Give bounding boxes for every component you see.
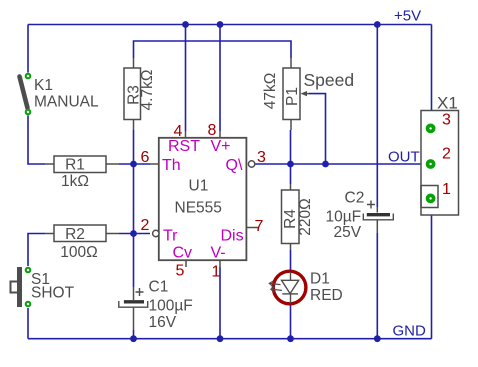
wire S1 bottom to GND [27, 308, 29, 339]
junction node Tr [130, 230, 137, 237]
switch K1 [19, 73, 99, 116]
junction C2 rail [374, 21, 381, 28]
wire R1 right to node Th [119, 163, 150, 165]
svg-text:100µF: 100µF [149, 298, 193, 315]
wire +5V rail left drop to K1 [27, 25, 29, 73]
svg-text:220Ω: 220Ω [297, 198, 314, 235]
svg-text:NE555: NE555 [175, 200, 222, 217]
svg-text:16V: 16V [149, 314, 177, 331]
svg-text:GND: GND [393, 323, 427, 340]
wire C1 bottom to GND [133, 330, 135, 339]
svg-text:RST: RST [168, 138, 200, 155]
wire R3 top to P1 top [134, 41, 292, 58]
junction GND V- [217, 335, 224, 342]
label +5V [394, 8, 421, 25]
svg-text:Dis: Dis [221, 228, 244, 245]
svg-text:Q\: Q\ [226, 157, 243, 174]
svg-text:C2: C2 [345, 190, 365, 207]
svg-text:D1: D1 [310, 271, 330, 288]
junction pin8 rail [217, 21, 224, 28]
wire IC pin1 V- to GND [219, 267, 221, 339]
wire node Th vertical to node Tr [133, 164, 135, 234]
resistor R4 [282, 184, 315, 250]
pin number 7 [255, 218, 264, 235]
label GND [393, 323, 427, 340]
wire pin8 to rail [219, 25, 221, 132]
pin number 8 [208, 122, 217, 139]
svg-text:V+: V+ [211, 138, 231, 155]
svg-text:P1: P1 [284, 87, 301, 106]
svg-text:4: 4 [174, 123, 183, 140]
wire X1 pin1 to GND [431, 201, 433, 339]
wire +5V rail right drop to X1 pin3 [431, 25, 433, 127]
pin number 3 [257, 149, 266, 166]
svg-text:Tr: Tr [163, 228, 178, 245]
wire +5V top rail [28, 24, 432, 26]
svg-text:100Ω: 100Ω [60, 244, 97, 261]
junction node Th [130, 161, 137, 168]
wire OUT pin3 to X1 pin2 [255, 163, 427, 165]
svg-text:MANUAL: MANUAL [34, 94, 99, 111]
node X1 pin 3 [426, 112, 451, 134]
svg-text:10µF: 10µF [326, 209, 362, 226]
svg-text:Th: Th [162, 157, 181, 174]
svg-text:25V: 25V [334, 224, 362, 241]
junction GND D1 [287, 335, 294, 342]
resistor R1 [45, 156, 119, 190]
svg-text:Speed: Speed [304, 70, 355, 90]
junction GND C2 [374, 335, 381, 342]
potentiometer P1 [262, 58, 354, 130]
svg-text:7: 7 [255, 218, 264, 235]
svg-text:2: 2 [442, 146, 451, 163]
wire P1 bottom to OUT node and R4 top [290, 130, 292, 184]
svg-text:C1: C1 [149, 279, 169, 296]
svg-text:OUT: OUT [388, 149, 420, 166]
wire C2 bottom to GND [376, 233, 378, 339]
svg-text:8: 8 [208, 122, 217, 139]
svg-text:+5V: +5V [394, 8, 421, 25]
wire R4 bottom to D1 [290, 250, 292, 272]
svg-text:2: 2 [141, 217, 150, 234]
svg-text:K1: K1 [34, 77, 53, 94]
pin number 4 [174, 123, 183, 140]
junction GND C1 [130, 335, 137, 342]
node X1 pin 2 [426, 146, 451, 169]
capacitor C1 [119, 279, 193, 332]
junction OUT R4 [287, 161, 294, 168]
label OUT [388, 149, 420, 166]
wire node Tr to C1 [133, 234, 135, 288]
svg-text:3: 3 [442, 112, 451, 129]
junction pin4 rail [182, 21, 189, 28]
wire pin4 to rail [185, 25, 187, 132]
svg-text:1: 1 [442, 181, 451, 198]
svg-text:X1: X1 [437, 94, 458, 113]
wire D1 bottom to GND [290, 304, 292, 339]
wire +5V drop to C2 [376, 25, 378, 208]
svg-text:6: 6 [141, 149, 150, 166]
node X1 pin 1 [426, 181, 451, 203]
resistor R3 [124, 58, 156, 130]
wire R2 left to S1 top [28, 234, 45, 267]
pin number 1 [212, 264, 221, 281]
svg-text:1: 1 [212, 264, 221, 281]
LED D1 [269, 271, 342, 305]
pin number 5 [176, 263, 185, 280]
pin number 6 [141, 149, 150, 166]
junction OUT wiper [322, 161, 329, 168]
svg-text:RED: RED [310, 287, 343, 304]
svg-text:U1: U1 [189, 178, 209, 195]
wire R2 right to node Tr [119, 233, 150, 235]
op-amp U1 NE555 [150, 131, 259, 267]
svg-text:47kΩ: 47kΩ [262, 73, 279, 110]
svg-text:V-: V- [211, 245, 226, 262]
wire P1 wiper to OUT node [309, 94, 326, 164]
svg-text:1kΩ: 1kΩ [61, 173, 89, 190]
wire GND bottom rail [28, 338, 432, 340]
resistor R2 [45, 225, 119, 261]
connector X1 [421, 94, 459, 216]
svg-text:R1: R1 [65, 157, 85, 174]
pin number 2 [141, 217, 150, 234]
svg-text:4.7kΩ: 4.7kΩ [139, 70, 156, 111]
svg-text:3: 3 [257, 149, 266, 166]
svg-text:Cv: Cv [173, 245, 193, 262]
svg-text:R2: R2 [65, 226, 85, 243]
wire R3 bottom to node Th [133, 130, 135, 164]
svg-text:5: 5 [176, 263, 185, 280]
svg-text:SHOT: SHOT [31, 285, 75, 302]
capacitor C2 [326, 190, 394, 242]
wire K1 bottom to R1 left [28, 116, 45, 165]
pushbutton S1 [11, 267, 75, 308]
